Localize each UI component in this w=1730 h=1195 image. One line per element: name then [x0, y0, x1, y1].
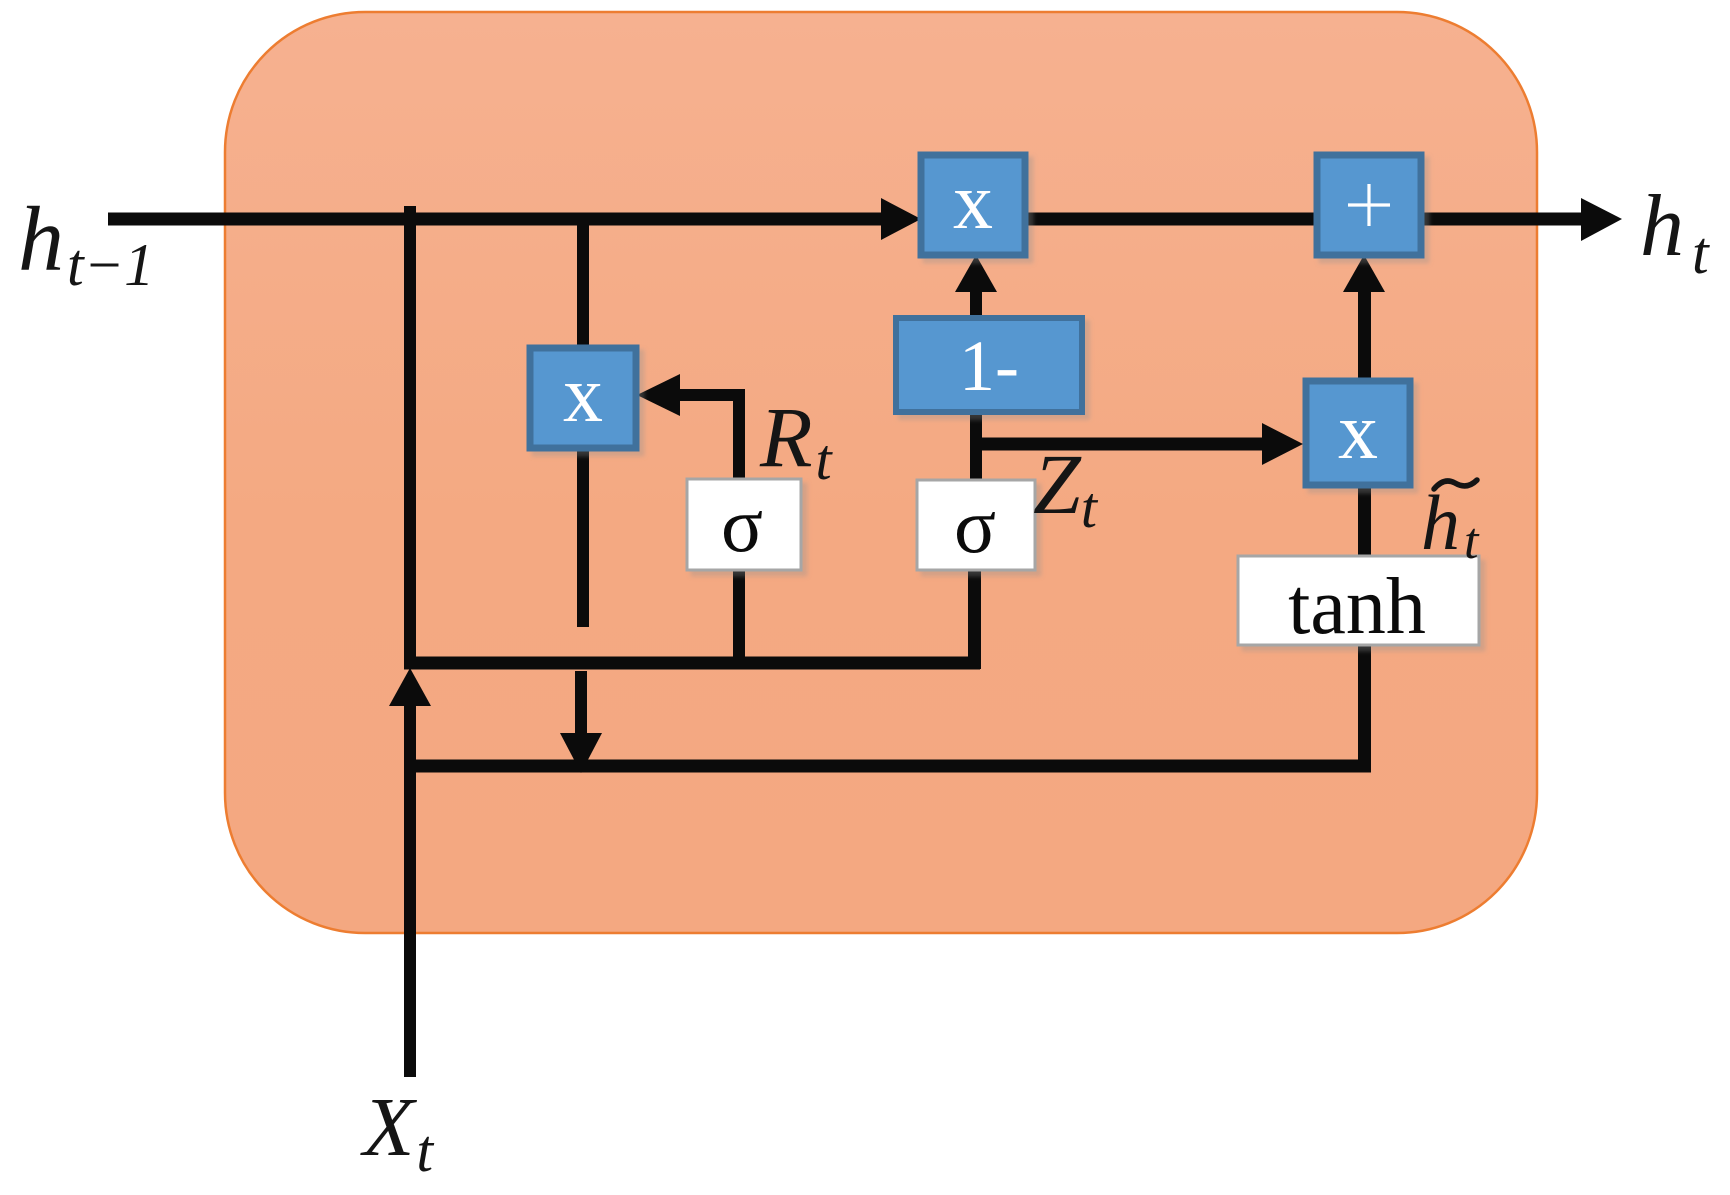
multiplier box top (update gate product) [921, 155, 1025, 255]
arrowhead into top x box [881, 198, 921, 240]
wire riser from line2 up to tanh [1358, 645, 1371, 772]
wire vertical below left x box [577, 448, 589, 627]
svg-text:ht: ht [1640, 178, 1710, 286]
sigma box left (reset gate) [687, 479, 801, 570]
label + in adder (drawn thin) [1348, 184, 1390, 226]
wire 1- box down to middle sigma [970, 412, 982, 480]
wire vertical h-line to left x box [577, 219, 589, 348]
wire h-line left segment (h_t-1 input) [108, 213, 886, 226]
wire right x box up to + box [1358, 292, 1371, 381]
wire line2 horizontal (reset-scaled state to tanh) [404, 760, 1371, 773]
arrowhead R_t into left x box [637, 374, 680, 416]
svg-text:ht−1: ht−1 [18, 188, 154, 298]
wire middle sigma to line1 [968, 570, 981, 669]
arrowhead X_t up into line1 [389, 668, 431, 706]
svg-text:σ: σ [721, 481, 763, 568]
arrowhead up into top x box [955, 255, 997, 292]
multiplier box right (candidate product) [1306, 381, 1410, 485]
wire vertical from h-line junction down to concat line [404, 206, 416, 669]
wire left sigma to line1 [733, 570, 745, 663]
wire 1- box up to top x box [970, 292, 982, 318]
svg-text:x: x [1338, 388, 1378, 476]
svg-text:σ: σ [954, 482, 996, 569]
arrowhead up into + box [1343, 255, 1385, 292]
adder box + [1317, 155, 1421, 255]
arrowhead Z_t into right x box [1262, 423, 1303, 465]
wire arrow segment from reset product down to line2 [575, 671, 587, 736]
sigma box middle (update gate) [917, 480, 1035, 570]
tanh box (candidate activation) [1238, 556, 1479, 645]
svg-text:tanh: tanh [1288, 563, 1426, 651]
svg-text:x: x [563, 351, 603, 439]
wire line1 horizontal (h_t-1 / X_t concat bus) [404, 657, 980, 670]
wire X_t input vertical [404, 706, 416, 1077]
wire Z_t branch horizontal [970, 438, 1262, 451]
svg-text:x: x [953, 158, 993, 246]
wire R_t corner horizontal with arrow into left x box [676, 389, 745, 401]
wire R_t corner vertical down to left sigma [733, 389, 745, 479]
tilde over h [1434, 480, 1477, 489]
multiplier box left (reset gate product) [530, 348, 636, 448]
svg-text:1-: 1- [959, 326, 1019, 406]
GRU cell body (rounded rectangle) [225, 12, 1537, 933]
one-minus box 1- [896, 318, 1082, 412]
wire right x box down to tanh [1358, 485, 1371, 556]
arrowhead h_t output [1581, 198, 1622, 241]
arrowhead down onto line2 [560, 733, 602, 773]
wire h-line middle segment (x box to + box) [1025, 213, 1317, 226]
wire h-line right segment (+ box to h_t) [1421, 213, 1583, 226]
svg-text:Xt: Xt [360, 1081, 434, 1184]
